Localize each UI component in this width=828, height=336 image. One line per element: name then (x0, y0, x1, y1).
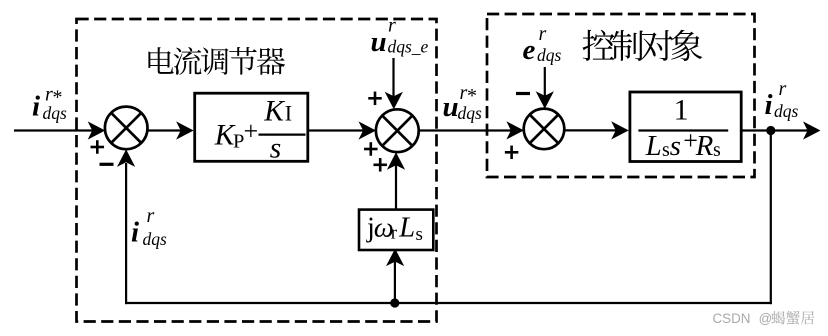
svg-text:r: r (779, 78, 787, 100)
block: decoupling gain j*wr*Ls (359, 210, 433, 250)
wire: input into summing junction S1 (14, 121, 105, 139)
sign + at S2 left input (364, 142, 378, 156)
label: feedback i_dqs^r (131, 205, 167, 249)
svg-text:dqs: dqs (43, 103, 68, 123)
wire: output node down (770, 131, 772, 305)
svg-text:i: i (131, 216, 139, 248)
svg-text:dqs: dqs (537, 45, 562, 65)
svg-text:dqs: dqs (458, 103, 483, 123)
svg-text:s: s (662, 139, 670, 161)
node: feedback tap to decoupling branch (390, 298, 399, 307)
label: u_dqs_e^r decoupling feedforward voltage (371, 15, 429, 58)
summing junction S3 (524, 109, 565, 150)
watermark: CSDN @蝎蟹居 (713, 311, 815, 326)
label: 控制对象 (control object) (583, 30, 703, 61)
label: input i_dqs^r* (32, 84, 67, 124)
summing junction S2 (376, 109, 419, 152)
block: plant 1/(Ls*s+Rs) (630, 92, 741, 162)
svg-text:i: i (32, 91, 40, 123)
wire: S2 to summing junction S3 (418, 121, 524, 139)
svg-text:I: I (285, 100, 292, 125)
label: u_dqs^r* commanded voltage (443, 82, 483, 123)
wire: S3 to plant block (564, 121, 629, 139)
sign - at S3 top input (516, 92, 530, 95)
sign + at S1 left input (91, 140, 105, 154)
block: PI controller KP+KI/s (195, 93, 308, 164)
svg-text:R: R (695, 130, 714, 162)
wire: tap up into jwLs block (386, 249, 404, 303)
svg-text:dqs: dqs (774, 101, 799, 121)
wire: S1 to PI block (147, 121, 193, 139)
wire: e_dqs down into S3 top (536, 67, 554, 109)
svg-text:K: K (263, 95, 285, 127)
svg-text:i: i (765, 89, 773, 121)
svg-text:s: s (270, 132, 281, 164)
wire: u_dqs_e down into S2 top (385, 58, 403, 109)
svg-text:CSDN: CSDN (713, 311, 751, 326)
svg-text:@: @ (759, 311, 773, 326)
label: output i_dqs^r (765, 78, 799, 121)
sign + at S2 top input (368, 92, 382, 106)
node: output tap dot (766, 126, 775, 135)
sign + at S3 left input (505, 146, 518, 160)
wire: plant output to the right with node (741, 121, 820, 139)
wire: feedback up into S1 bottom (117, 149, 135, 304)
svg-text:+: + (244, 117, 259, 146)
label: 电流调节器 (current regulator) (148, 47, 285, 75)
svg-text:dqs: dqs (143, 229, 168, 249)
svg-text:L: L (398, 212, 415, 243)
sign + at S2 bottom input (373, 158, 387, 172)
svg-text:r: r (147, 205, 155, 227)
svg-text:u: u (371, 26, 387, 58)
svg-text:s: s (670, 130, 681, 162)
svg-text:dqs_e: dqs_e (388, 37, 429, 57)
sign - at S1 bottom feedback input (100, 163, 114, 166)
dashed box: control object (487, 14, 755, 177)
svg-text:u: u (443, 91, 459, 123)
wire: bottom feedback line (125, 302, 772, 304)
svg-text:r: r (539, 23, 547, 45)
label: e_dqs^r back-EMF (523, 23, 562, 66)
svg-text:s: s (713, 139, 721, 161)
svg-text:L: L (645, 130, 662, 162)
svg-text:s: s (416, 224, 423, 245)
svg-text:1: 1 (674, 93, 689, 126)
wire: jwLs output up into S2 bottom (387, 152, 405, 209)
summing junction S1 (105, 107, 148, 150)
dashed box: current regulator (77, 19, 437, 322)
svg-text:r: r (388, 15, 396, 37)
svg-text:r: r (391, 222, 398, 243)
svg-text:e: e (523, 34, 536, 66)
wire: PI block to summing junction S2 (309, 121, 377, 139)
